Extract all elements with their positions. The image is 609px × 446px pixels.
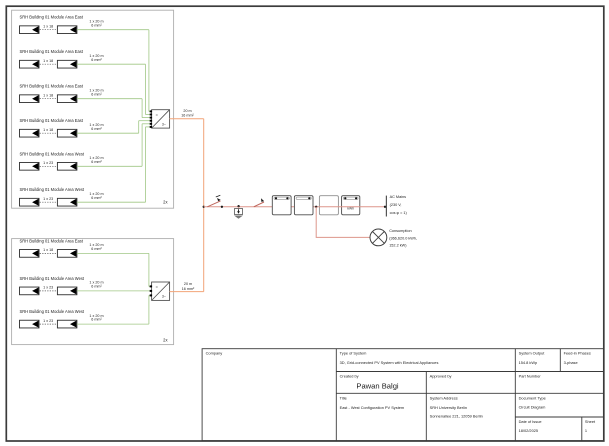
- svg-text:6 mm²: 6 mm²: [91, 127, 102, 131]
- svg-text:SRH Building 01 Module Area Ea: SRH Building 01 Module Area East: [20, 84, 84, 89]
- svg-text:16 mm²: 16 mm²: [182, 287, 195, 291]
- series connection dashes + count label 1 x 23: [40, 319, 57, 324]
- svg-text:Sheet: Sheet: [585, 419, 596, 424]
- svg-text:AC Mains: AC Mains: [390, 195, 407, 199]
- svg-text:SRH Building 01 Module Area We: SRH Building 01 Module Area West: [20, 309, 85, 314]
- energy meter M3 (kWh): [342, 196, 360, 215]
- svg-text:cos φ = 1): cos φ = 1): [390, 211, 408, 215]
- svg-text:2x: 2x: [163, 337, 167, 342]
- svg-text:Approved by: Approved by: [430, 373, 452, 378]
- PV module symbol 2 (SRH Building 01 Module Area West): [57, 162, 77, 170]
- svg-text:6 mm²: 6 mm²: [91, 23, 102, 27]
- svg-text:SRH Building 01 Module Area Ea: SRH Building 01 Module Area East: [20, 118, 84, 123]
- svg-text:SRH Building 01 Module Area We: SRH Building 01 Module Area West: [20, 151, 85, 156]
- PV module symbol 1 (SRH Building 01 Module Area East): [20, 95, 40, 103]
- title block texts: [206, 351, 596, 433]
- DC string wire (horizontal): [77, 165, 142, 167]
- svg-text:Document Type: Document Type: [519, 396, 546, 401]
- surge arrester F1 (tap down): [234, 207, 242, 215]
- DC string wire (horizontal): [77, 63, 146, 65]
- DC stub wire into inverter pin: [146, 126, 152, 128]
- svg-text:Part Number: Part Number: [519, 373, 542, 378]
- svg-text:20 m: 20 m: [184, 282, 192, 286]
- inverter U2: [152, 282, 170, 300]
- svg-text:Title: Title: [340, 396, 347, 401]
- subsystem group box 1 (top): [12, 10, 174, 208]
- switch S2 (breaker): [254, 198, 264, 207]
- distribution box: [319, 196, 338, 215]
- DC cable label 1 x 20 m / 6 mm²: [89, 54, 103, 62]
- PV module symbol 1 (SRH Building 01 Module Area West): [20, 162, 40, 170]
- DC string wire (vertical riser): [145, 127, 147, 202]
- AC bus vertical wire joining both inverters: [203, 119, 205, 292]
- inverter U1 AC output wire + corner down: [170, 118, 204, 120]
- title block grid: [202, 349, 604, 441]
- svg-text:20 m: 20 m: [183, 109, 191, 113]
- svg-text:Sonnenallee 221, 12059 Berlin: Sonnenallee 221, 12059 Berlin: [430, 414, 483, 419]
- meter M1: [272, 196, 291, 215]
- svg-text:6 mm²: 6 mm²: [91, 196, 102, 200]
- svg-text:6 mm²: 6 mm²: [91, 160, 102, 164]
- PV module symbol 1 (SRH Building 01 Module Area East): [20, 250, 40, 258]
- inverter U1 DC input pins (6): [150, 110, 152, 128]
- svg-text:6 mm²: 6 mm²: [91, 247, 102, 251]
- DC string wire (horizontal): [77, 29, 149, 31]
- DC stub wire into inverter pin: [146, 114, 152, 116]
- svg-text:1 x 18: 1 x 18: [43, 128, 53, 132]
- AC mains label: [390, 195, 408, 215]
- PV module symbol 2 (SRH Building 01 Module Area East): [57, 95, 77, 103]
- series connection dashes + count label 1 x 23: [40, 286, 57, 291]
- DC string wire (vertical riser): [148, 295, 150, 324]
- svg-text:1 x 18: 1 x 18: [43, 93, 53, 97]
- svg-text:SRH Building 01 Module Area Ea: SRH Building 01 Module Area East: [20, 238, 84, 243]
- svg-text:6 mm²: 6 mm²: [91, 92, 102, 96]
- DC string wire (vertical riser): [148, 253, 150, 286]
- consumption label: [389, 229, 417, 248]
- DC cable label 1 x 20 m / 6 mm²: [89, 19, 103, 27]
- svg-text:1 x 23: 1 x 23: [43, 286, 53, 290]
- svg-text:1 x 23: 1 x 23: [43, 319, 53, 323]
- svg-text:Company: Company: [206, 351, 223, 356]
- DC string wire (vertical riser): [141, 99, 143, 118]
- PV module symbol 1 (SRH Building 01 Module Area West): [20, 287, 40, 295]
- DC string wire (vertical riser): [141, 124, 143, 167]
- PV module symbol 2 (SRH Building 01 Module Area West): [57, 198, 77, 206]
- consumption load symbol (lamp circle): [370, 229, 387, 246]
- inverter U2 DC input pins (3): [150, 285, 152, 296]
- PV module symbol 1 (SRH Building 01 Module Area East): [20, 129, 40, 137]
- junction node at AC mains: [384, 206, 386, 208]
- DC string wire (vertical riser): [138, 121, 140, 134]
- svg-text:6 mm²: 6 mm²: [91, 285, 102, 289]
- meter M2: [294, 196, 313, 215]
- DC cable label 1 x 20 m / 6 mm²: [89, 192, 103, 200]
- svg-text:Pawan Balgi: Pawan Balgi: [356, 382, 399, 391]
- svg-text:(230 V,: (230 V,: [390, 203, 402, 207]
- svg-text:6 mm²: 6 mm²: [91, 318, 102, 322]
- inverter U1: [152, 110, 170, 128]
- svg-text:Created by: Created by: [340, 373, 359, 378]
- svg-text:1 x 23: 1 x 23: [43, 197, 53, 201]
- svg-text:18/02/2025: 18/02/2025: [519, 428, 538, 433]
- series connection dashes + count label 1 x 18: [40, 248, 57, 253]
- svg-text:Circuit Diagram: Circuit Diagram: [519, 404, 546, 409]
- DC string wire (horizontal): [77, 290, 152, 292]
- DC stub wire into inverter pin: [149, 285, 152, 287]
- svg-text:16 mm²: 16 mm²: [181, 114, 194, 118]
- junction node at surge arrester tap: [237, 205, 239, 207]
- svg-text:1 x 23: 1 x 23: [43, 161, 53, 165]
- series connection dashes + count label 1 x 18: [40, 128, 57, 133]
- svg-text:3~: 3~: [162, 295, 166, 299]
- series connection dashes + count label 1 x 18: [40, 24, 57, 29]
- DC string wire (horizontal): [77, 98, 142, 100]
- PV module symbol 2 (SRH Building 01 Module Area West): [57, 320, 77, 328]
- PV module symbol 1 (SRH Building 01 Module Area East): [20, 60, 40, 68]
- inverter U2 AC output wire: [170, 291, 204, 293]
- DC string wire (horizontal): [77, 252, 149, 254]
- svg-text:3D, Grid-connected PV System w: 3D, Grid-connected PV System with Electr…: [340, 360, 439, 365]
- DC cable label 1 x 20 m / 6 mm²: [89, 281, 103, 289]
- svg-text:6 mm²: 6 mm²: [91, 58, 102, 62]
- svg-text:1: 1: [585, 428, 587, 433]
- series connection dashes + count label 1 x 23: [40, 197, 57, 202]
- PV module symbol 2 (SRH Building 01 Module Area East): [57, 60, 77, 68]
- svg-text:1 x 18: 1 x 18: [43, 24, 53, 28]
- main AC wire (bus junction to AC mains): [204, 206, 387, 208]
- svg-text:(366,620.0 kWh,: (366,620.0 kWh,: [389, 236, 417, 240]
- svg-text:SRH Building 01 Module Area We: SRH Building 01 Module Area West: [20, 276, 85, 281]
- AC cable label 20 m / 16 mm² (U2): [182, 282, 195, 291]
- PV module symbol 2 (SRH Building 01 Module Area East): [57, 129, 77, 137]
- ground symbol under surge arrester: [234, 216, 243, 219]
- svg-text:3-phase: 3-phase: [564, 360, 578, 365]
- series connection dashes + count label 1 x 18: [40, 93, 57, 98]
- svg-text:Feed-in Phases: Feed-in Phases: [564, 351, 591, 356]
- DC cable label 1 x 20 m / 6 mm²: [89, 123, 103, 131]
- DC string wire (horizontal): [77, 132, 139, 134]
- DC string wire (vertical riser): [145, 64, 147, 114]
- series connection dashes + count label 1 x 18: [40, 59, 57, 64]
- DC stub wire into inverter pin: [149, 110, 152, 112]
- svg-text:Date of Issue: Date of Issue: [519, 419, 542, 424]
- DC cable label 1 x 20 m / 6 mm²: [89, 156, 103, 164]
- PV module symbol 1 (SRH Building 01 Module Area East): [20, 26, 40, 34]
- AC cable label 20 m / 16 mm² (U1): [181, 109, 194, 118]
- DC stub wire into inverter pin: [139, 120, 152, 122]
- DC cable label 1 x 20 m / 6 mm²: [89, 88, 103, 96]
- DC cable label 1 x 20 m / 6 mm²: [89, 314, 103, 322]
- PV module symbol 1 (SRH Building 01 Module Area West): [20, 198, 40, 206]
- svg-text:System Output: System Output: [519, 351, 546, 356]
- DC stub wire into inverter pin: [142, 123, 152, 125]
- svg-text:Consumption: Consumption: [389, 229, 411, 233]
- svg-text:System Address: System Address: [430, 396, 458, 401]
- DC stub wire into inverter pin: [142, 117, 152, 119]
- svg-text:East - West Configuration PV S: East - West Configuration PV System: [340, 405, 405, 410]
- svg-text:152.2 kW): 152.2 kW): [389, 244, 407, 248]
- AC mains bar: [385, 196, 387, 217]
- svg-text:2x: 2x: [163, 200, 167, 205]
- svg-text:Type of System: Type of System: [340, 351, 367, 356]
- DC cable label 1 x 20 m / 6 mm²: [89, 243, 103, 251]
- PV module symbol 1 (SRH Building 01 Module Area West): [20, 320, 40, 328]
- DC string wire (horizontal): [77, 323, 149, 325]
- subsystem group box 2 (bottom): [12, 239, 174, 345]
- PV module symbol 2 (SRH Building 01 Module Area East): [57, 250, 77, 258]
- switch S1 (load-break switch): [207, 195, 223, 208]
- DC stub wire into inverter pin: [149, 294, 152, 296]
- DC string wire (horizontal): [77, 201, 146, 203]
- svg-text:SRH Building 01 Module Area We: SRH Building 01 Module Area West: [20, 187, 85, 192]
- svg-text:1 x 18: 1 x 18: [43, 248, 53, 252]
- series connection dashes + count label 1 x 23: [40, 161, 57, 166]
- PV module symbol 2 (SRH Building 01 Module Area East): [57, 26, 77, 34]
- wire: branch down to consumption: [316, 207, 370, 238]
- junction node to consumption branch: [315, 206, 317, 208]
- svg-text:154.8 kWp: 154.8 kWp: [519, 360, 538, 365]
- svg-text:1 x 18: 1 x 18: [43, 59, 53, 63]
- junction node on AC bus: [203, 206, 205, 208]
- svg-text:SRH Building 01 Module Area Ea: SRH Building 01 Module Area East: [20, 49, 84, 54]
- PV module symbol 2 (SRH Building 01 Module Area West): [57, 287, 77, 295]
- svg-text:3~: 3~: [162, 122, 166, 126]
- svg-text:SRH University Berlin: SRH University Berlin: [430, 405, 467, 410]
- DC string wire (vertical riser): [148, 30, 150, 112]
- svg-text:SRH Building 01 Module Area Ea: SRH Building 01 Module Area East: [20, 15, 84, 20]
